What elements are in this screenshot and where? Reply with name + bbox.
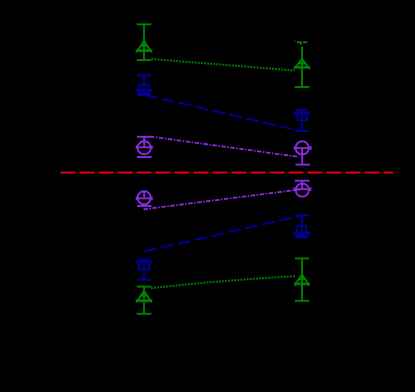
errorbar cluster: blue square upper-left (S1L) <box>136 75 151 95</box>
errorbar cluster: green triangle upper-right (T1R) with broken top cap <box>294 41 309 87</box>
red dashed zero line <box>61 172 394 174</box>
series line: purple dash-dot lower <box>144 189 303 209</box>
series line: blue dashed lower <box>144 216 302 252</box>
series line: green dotted lower <box>151 276 296 288</box>
errorbar cluster: green triangle lower-right (T2R) <box>295 258 309 300</box>
errorbar cluster: purple circle lower-right (C2R) <box>294 181 311 197</box>
errorbar cluster: blue square upper-right (S1R) <box>294 110 309 131</box>
series line: purple dash-dot upper <box>150 137 298 157</box>
errorbar cluster: purple circle upper-right (C1R) <box>294 141 311 164</box>
series line: blue dashed upper <box>145 95 302 131</box>
series line: green dotted upper <box>152 59 295 71</box>
errorbar cluster: green triangle lower-left (T2L) <box>136 287 151 314</box>
errorbar cluster: blue square lower-right (S2R) <box>294 215 309 237</box>
errorbar cluster: green triangle upper-left (T1L) <box>136 24 151 60</box>
errorbar cluster: purple circle lower-left (C2L) <box>136 191 152 206</box>
errorbar cluster: purple circle upper-left (C1L) <box>136 137 152 157</box>
errorbar cluster: blue square lower-left (S2L) <box>136 260 151 280</box>
